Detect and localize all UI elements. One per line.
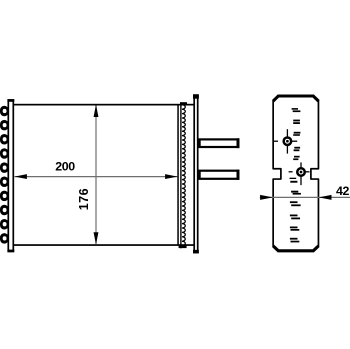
dimension line 42 [260, 195, 350, 200]
tube end loop 1 [0, 106, 9, 117]
tube end loop 8 [0, 205, 9, 216]
side view thick top edge [273, 96, 318, 101]
svg-text:200: 200 [55, 160, 75, 174]
tube end loop 10 [0, 233, 9, 244]
mount hole target 2 [289, 162, 310, 185]
tube end loop 3 [0, 134, 9, 145]
mount hole target 1 [274, 129, 297, 153]
left tank (header bar) [7, 99, 14, 252]
tube end loop 4 [0, 148, 9, 159]
dimension line 176 (vertical) [94, 105, 99, 245]
outlet pipe [200, 170, 240, 180]
core right edge line [177, 104, 179, 246]
fin strip bottom cap [179, 245, 187, 248]
dimension line 200 (horizontal) [14, 174, 177, 179]
svg-text:176: 176 [77, 188, 91, 210]
right end plate bar [193, 94, 199, 253]
tube end loop 5 [0, 162, 9, 173]
core top edge [14, 104, 195, 106]
corrugated fin strip left line [180, 102, 181, 248]
inlet pipe [200, 138, 240, 148]
tube end loop 7 [0, 191, 9, 202]
side view thick bottom edge [273, 246, 318, 251]
ruler tick marks [290, 108, 301, 242]
tube end loop 6 [0, 177, 9, 188]
tube end loop 9 [0, 219, 9, 230]
side view outline [273, 96, 318, 252]
corrugated fin zigzag [182, 105, 185, 246]
tube end loop 2 [0, 120, 9, 130]
fin strip top cap [180, 102, 187, 105]
core bottom edge [14, 244, 195, 246]
svg-text:42: 42 [336, 184, 349, 198]
